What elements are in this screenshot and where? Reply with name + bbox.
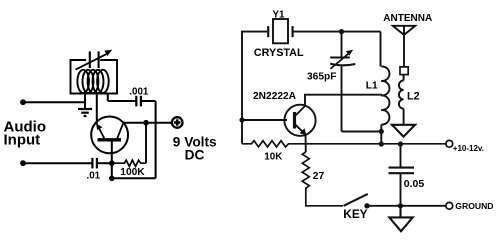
ground (rf, under L2) <box>392 125 415 137</box>
wire: tank top down to L1 <box>380 32 382 67</box>
svg-text:2N2222A: 2N2222A <box>253 91 297 102</box>
node: rail cap junction <box>398 141 403 146</box>
wire: base lead <box>242 119 287 121</box>
wire: left rail <box>242 32 267 144</box>
link box on antenna lead <box>400 67 408 75</box>
node: audio input bottom terminal <box>20 160 26 166</box>
svg-text:ANTENNA: ANTENNA <box>383 13 432 24</box>
svg-text:365pF: 365pF <box>307 72 336 83</box>
node: bottom rail junction <box>109 176 115 182</box>
wire: emitter lead down <box>305 134 307 152</box>
node: base-rail junction <box>239 117 244 122</box>
svg-text:DC: DC <box>185 148 205 163</box>
svg-text:L2: L2 <box>407 91 420 103</box>
wire: .001 to bottom rail (crosses main wire) <box>155 101 157 178</box>
node: base junction <box>109 160 115 166</box>
wire: 365pF bottom to L1 bottom <box>342 131 382 133</box>
capacitor C1 variable (tank) <box>76 50 113 70</box>
node: L1 bottom junction <box>379 129 384 134</box>
svg-text:+10-12v.: +10-12v. <box>453 144 484 153</box>
transistor Q2 2N2222A <box>284 105 315 136</box>
node: audio input top terminal <box>20 99 26 105</box>
resistor 10K <box>242 141 446 147</box>
svg-text:KEY: KEY <box>343 207 367 221</box>
svg-text:.01: .01 <box>87 171 101 182</box>
wire: collector lead up and to L1 tap <box>305 95 382 106</box>
wire: box to L2 <box>403 75 405 81</box>
resistor 27 <box>302 152 343 206</box>
crystal Y1 <box>268 19 292 43</box>
node: key/cap/ground junction <box>398 203 403 208</box>
ground <box>78 94 92 117</box>
capacitor .001 <box>108 94 156 107</box>
svg-text:0.05: 0.05 <box>404 178 425 190</box>
node: ground terminal <box>446 202 453 209</box>
node: +10-12v terminal <box>446 140 453 147</box>
inductor L1 <box>381 66 389 124</box>
node: collector rail junction <box>143 120 149 126</box>
switch KEY <box>344 194 401 209</box>
transistor Q1 <box>91 116 128 153</box>
wire: L2 bottom <box>403 109 405 125</box>
svg-text:L1: L1 <box>366 80 378 91</box>
wire: collector to 9V terminal <box>123 122 171 124</box>
tank circuit box (loop) <box>71 60 118 94</box>
capacitor 0.05 <box>389 144 415 206</box>
svg-text:GROUND: GROUND <box>455 201 493 211</box>
wire: base lead down <box>111 142 113 179</box>
node: 9V positive terminal <box>172 117 183 128</box>
ground (chassis under key junction) <box>389 206 412 231</box>
node: L1 rail junction <box>379 141 384 146</box>
inductor L2 <box>399 81 404 109</box>
resistor 100K <box>112 123 146 167</box>
svg-text:.001: .001 <box>129 87 149 98</box>
wire: crystal to tank top <box>293 31 381 33</box>
wire: top audio input lead <box>23 101 85 103</box>
wire: coil right lead down to transistor emitter <box>96 93 98 125</box>
svg-text:100K: 100K <box>120 167 145 178</box>
wire: bottom rail <box>112 177 156 179</box>
svg-text:10K: 10K <box>264 152 282 163</box>
wire: bottom audio input lead <box>23 162 92 164</box>
inductor L (tank coil) <box>77 70 108 93</box>
wire: ground rail to terminal <box>401 205 446 207</box>
wire: L1 bottom <box>380 125 382 145</box>
svg-text:27: 27 <box>313 171 325 182</box>
capacitor .01 <box>92 158 111 169</box>
svg-text:Input: Input <box>4 132 41 149</box>
capacitor 365pF variable <box>330 32 355 132</box>
svg-text:Y1: Y1 <box>273 10 286 21</box>
node: tank top junction <box>339 29 344 34</box>
antenna <box>393 26 415 67</box>
svg-text:CRYSTAL: CRYSTAL <box>254 47 304 59</box>
